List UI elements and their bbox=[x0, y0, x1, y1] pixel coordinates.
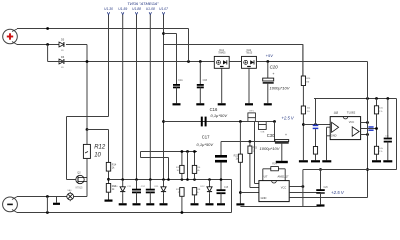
svg-text:AMS1117: AMS1117 bbox=[277, 175, 289, 179]
svg-text:1000µ*10V: 1000µ*10V bbox=[270, 85, 290, 90]
svg-text:+5V: +5V bbox=[266, 53, 274, 58]
svg-text:C15: C15 bbox=[224, 187, 229, 189]
svg-text:TL082: TL082 bbox=[347, 111, 356, 115]
svg-text:U1-07: U1-07 bbox=[159, 7, 168, 11]
svg-text:78L05: 78L05 bbox=[246, 52, 253, 55]
svg-text:ТИПА "ATMEGA": ТИПА "ATMEGA" bbox=[127, 1, 159, 6]
svg-text:1%: 1% bbox=[379, 151, 382, 153]
svg-text:C1B: C1B bbox=[203, 80, 208, 82]
svg-text:C17: C17 bbox=[202, 135, 210, 140]
svg-text:C1A: C1A bbox=[178, 79, 183, 82]
svg-text:1M: 1M bbox=[306, 81, 309, 83]
svg-text:D5: D5 bbox=[61, 38, 65, 42]
svg-text:Q2: Q2 bbox=[77, 171, 81, 175]
svg-text:+2.5 V: +2.5 V bbox=[331, 190, 345, 195]
svg-text:VCC: VCC bbox=[281, 186, 287, 190]
svg-text:R12: R12 bbox=[94, 145, 106, 151]
svg-text:0,1µ*50V: 0,1µ*50V bbox=[211, 113, 228, 118]
svg-text:Y2B: Y2B bbox=[260, 132, 265, 134]
svg-text:10: 10 bbox=[94, 153, 101, 159]
svg-text:0,1µ*50V: 0,1µ*50V bbox=[197, 142, 214, 147]
svg-text:+2.5 V: +2.5 V bbox=[282, 116, 295, 121]
svg-text:U1-30: U1-30 bbox=[104, 7, 113, 11]
svg-text:GND: GND bbox=[261, 196, 267, 200]
svg-text:D6: D6 bbox=[61, 55, 65, 59]
svg-text:+: + bbox=[285, 133, 287, 137]
svg-text:C30: C30 bbox=[267, 133, 275, 138]
svg-text:R34: R34 bbox=[272, 163, 277, 166]
svg-text:78M05: 78M05 bbox=[218, 52, 226, 55]
svg-text:1000µ*10V: 1000µ*10V bbox=[260, 146, 280, 151]
svg-text:KD: KD bbox=[61, 50, 64, 52]
svg-text:VCC: VCC bbox=[349, 120, 355, 124]
svg-text:U1-88: U1-88 bbox=[132, 7, 141, 11]
svg-text:1%: 1% bbox=[307, 111, 310, 113]
svg-text:U1-59: U1-59 bbox=[118, 7, 127, 11]
svg-text:U7: U7 bbox=[264, 175, 268, 179]
svg-text:KT815: KT815 bbox=[76, 187, 83, 189]
svg-text:KD: KD bbox=[61, 67, 64, 69]
svg-text:+: + bbox=[272, 72, 274, 76]
svg-text:C20: C20 bbox=[270, 65, 279, 70]
svg-text:U1-08: U1-08 bbox=[146, 7, 155, 11]
svg-text:C26: C26 bbox=[324, 187, 329, 189]
svg-text:GND: GND bbox=[331, 134, 337, 138]
svg-text:U8: U8 bbox=[334, 111, 338, 115]
svg-text:C16: C16 bbox=[210, 107, 218, 112]
svg-text:1%: 1% bbox=[379, 111, 382, 113]
